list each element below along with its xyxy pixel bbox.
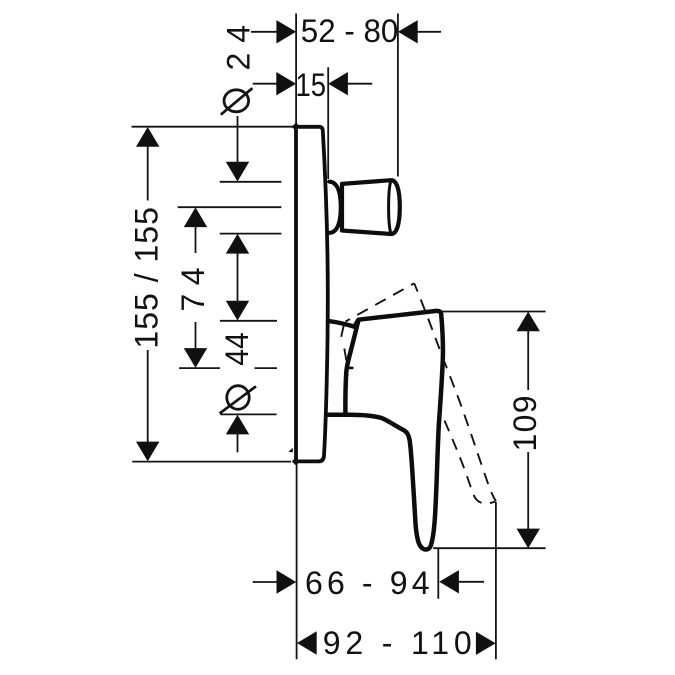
- svg-text:52 - 80: 52 - 80: [301, 13, 399, 49]
- svg-text:155 / 155: 155 / 155: [129, 207, 165, 349]
- svg-text:15: 15: [296, 67, 327, 103]
- svg-text:44: 44: [219, 332, 255, 366]
- svg-text:109: 109: [507, 396, 543, 452]
